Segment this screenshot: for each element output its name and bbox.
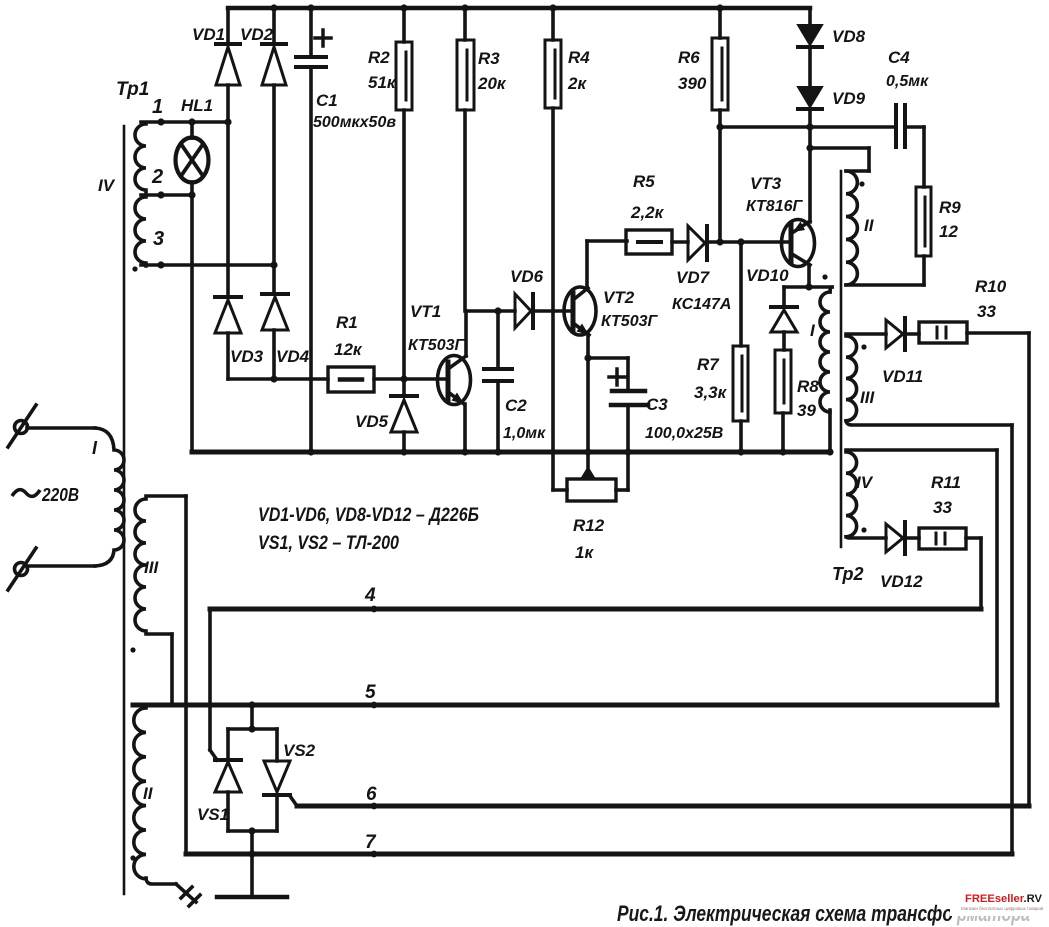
label AC tilde symbol [12, 490, 40, 497]
node bottom bus junctions [307, 448, 833, 455]
thyristor block top rail [228, 705, 277, 729]
resistor R9 [916, 127, 931, 285]
svg-text:II: II [864, 216, 875, 235]
wire tap 2 [141, 193, 192, 197]
svg-text:КС147А: КС147А [672, 296, 731, 313]
svg-text:3: 3 [153, 228, 164, 250]
transistor VT1 [438, 311, 471, 452]
winding I of Tp1 primary [95, 428, 124, 566]
node C2 top junction [494, 307, 501, 314]
svg-text:КТ503Г: КТ503Г [601, 313, 659, 330]
svg-text:Магазин бесплатных цифровых то: Магазин бесплатных цифровых товаров [961, 906, 1044, 911]
svg-text:VT2: VT2 [603, 288, 635, 307]
svg-text:R3: R3 [478, 49, 500, 68]
svg-text:КТ816Г: КТ816Г [746, 198, 804, 215]
svg-text:VD5: VD5 [355, 412, 389, 431]
diode VD6 [515, 294, 573, 328]
node emitter branch [584, 354, 591, 361]
diode VD7 zener [688, 226, 707, 260]
node VT3 collector junction [805, 283, 812, 290]
resistor R11 [919, 528, 981, 549]
node winding II polarity dot [859, 181, 864, 186]
svg-text:7: 7 [365, 832, 377, 853]
svg-text:VS2: VS2 [283, 741, 316, 760]
diode VD2 [262, 8, 286, 265]
svg-text:VD6: VD6 [510, 267, 544, 286]
resistor R6 [712, 8, 728, 242]
svg-text:VD2: VD2 [240, 25, 274, 44]
svg-text:VD1-VD6, VD8-VD12 – Д226Б: VD1-VD6, VD8-VD12 – Д226Б [258, 505, 479, 526]
node R6/R7 junctions on zener wire [716, 238, 744, 245]
wire line 7 [186, 852, 1012, 857]
svg-text:R2: R2 [368, 48, 390, 67]
wire line 4 [210, 607, 981, 612]
wire VD9 node to Tp2 winding II top [810, 148, 869, 171]
svg-text:500мкх50в: 500мкх50в [313, 114, 396, 131]
wire winding III top to line 7 [184, 496, 188, 854]
node junction dots on VD8/VD9 column [716, 123, 813, 151]
diode VD12 [886, 522, 919, 554]
capacitor C1 [296, 8, 331, 452]
winding IV of Tp1 section 1-2 [135, 124, 146, 193]
svg-text:I: I [92, 438, 98, 458]
node winding III polarity dot [130, 647, 135, 652]
svg-text:33: 33 [933, 498, 952, 517]
diode VD8 [798, 8, 822, 87]
svg-text:1к: 1к [575, 543, 594, 562]
svg-text:51к: 51к [368, 73, 397, 92]
node top bus junctions [270, 4, 723, 11]
diode VD9 [798, 87, 822, 222]
wire line 6 [297, 804, 1029, 809]
svg-text:VT3: VT3 [750, 174, 782, 193]
svg-text:КТ503Г: КТ503Г [408, 337, 466, 354]
wire tap 3 [141, 263, 274, 267]
svg-text:2,2к: 2,2к [630, 203, 665, 222]
resistor R1 [228, 367, 448, 392]
winding III of Tp1 [135, 496, 186, 634]
capacitor C2 [484, 311, 512, 452]
watermark freeseller [950, 876, 1049, 916]
wire tap 1 [141, 120, 228, 124]
svg-text:VS1: VS1 [197, 805, 229, 824]
svg-text:6: 6 [366, 784, 377, 805]
node winding II polarity dot [130, 855, 135, 860]
svg-text:R8: R8 [797, 377, 819, 396]
svg-text:VD3: VD3 [230, 347, 264, 366]
potentiometer R12 [567, 452, 628, 501]
wire winding III bottom to line 7 [1010, 425, 1014, 854]
wire common bottom bus [192, 450, 830, 455]
winding III of Tp2 [846, 334, 1012, 425]
svg-text:III: III [144, 558, 159, 577]
wire VT3 collector to winding I top [784, 285, 832, 289]
svg-text:100,0х25В: 100,0х25В [645, 425, 723, 442]
svg-text:R7: R7 [697, 355, 720, 374]
svg-text:R1: R1 [336, 313, 358, 332]
svg-text:1,0мк: 1,0мк [503, 425, 546, 442]
svg-text:HL1: HL1 [181, 96, 213, 115]
svg-text:VD1: VD1 [192, 25, 225, 44]
wire VS block to line7 and earth [250, 831, 254, 897]
svg-text:R12: R12 [573, 516, 605, 535]
resistor R10 [919, 322, 1029, 343]
svg-text:33: 33 [977, 302, 996, 321]
svg-text:C2: C2 [505, 396, 527, 415]
thyristor VS1 [215, 729, 241, 831]
capacitor C4 [896, 105, 924, 147]
svg-text:VD12: VD12 [880, 572, 923, 591]
wire R11 to line 4 [979, 538, 983, 609]
thyristor block bottom rail [228, 829, 277, 833]
svg-text:VD9: VD9 [832, 89, 866, 108]
svg-text:VT1: VT1 [410, 302, 441, 321]
transformer Tp1 core [123, 126, 126, 894]
svg-text:R9: R9 [939, 198, 961, 217]
wire winding IV top to line 5 [995, 450, 999, 705]
svg-text:3,3к: 3,3к [694, 383, 728, 402]
svg-text:C3: C3 [646, 395, 668, 414]
svg-text:II: II [143, 784, 154, 803]
svg-text:4: 4 [364, 585, 376, 606]
svg-text:5: 5 [365, 682, 376, 703]
svg-text:FREEseller.RV: FREEseller.RV [965, 893, 1042, 905]
node R1 wire junctions [270, 375, 407, 382]
resistor R5 [587, 230, 688, 254]
svg-text:12: 12 [939, 222, 958, 241]
label figure caption [617, 901, 1030, 926]
resistor R7 [733, 242, 748, 452]
svg-text:12к: 12к [334, 340, 363, 359]
svg-text:R4: R4 [568, 48, 590, 67]
resistor R8 [775, 350, 791, 452]
svg-text:R5: R5 [633, 172, 655, 191]
node winding IV polarity dot [132, 266, 137, 271]
winding II of Tp1 [134, 708, 176, 884]
capacitor C3 [609, 369, 648, 452]
svg-text:Тр1: Тр1 [116, 79, 149, 100]
transistor VT3 [707, 220, 815, 288]
transistor VT2 [564, 241, 596, 469]
diode VD4 [262, 265, 288, 379]
ground chassis symbol [176, 884, 200, 906]
winding IV of Tp2 [846, 450, 997, 538]
ground earth symbol [217, 895, 287, 900]
svg-text:20к: 20к [477, 74, 507, 93]
wire Tp2 winding II bottom to R9 [846, 283, 924, 287]
resistor R3 [457, 8, 474, 311]
diode VD11 [886, 318, 919, 350]
svg-text:2к: 2к [567, 74, 587, 93]
wire top supply bus [228, 6, 810, 11]
wire VT2 emitter to C3 [588, 358, 628, 390]
svg-text:Рис.1. Электрическая схема тра: Рис.1. Электрическая схема трансфо [617, 901, 953, 926]
svg-text:390: 390 [678, 74, 707, 93]
svg-text:VD11: VD11 [882, 367, 923, 386]
node measurement dots on lines [371, 606, 378, 858]
svg-text:VS1, VS2 – ТЛ-200: VS1, VS2 – ТЛ-200 [258, 533, 399, 554]
svg-text:IV: IV [98, 176, 116, 195]
resistor R2 [396, 8, 412, 379]
svg-text:C1: C1 [316, 91, 338, 110]
node winding I polarity dot [822, 274, 827, 279]
resistor R4 [545, 8, 567, 490]
thyristor VS2 [264, 729, 297, 831]
wire R6 to VD9 node to C4 [720, 125, 894, 129]
svg-text:R10: R10 [975, 277, 1007, 296]
svg-text:IV: IV [856, 473, 874, 492]
winding II of Tp2 [846, 171, 857, 285]
node tap junction dots [157, 118, 277, 268]
node winding IV Tp2 polarity dot [861, 527, 866, 532]
node winding III Tp2 polarity dot [861, 344, 866, 349]
terminal input 2 [8, 548, 95, 590]
svg-text:VD7: VD7 [676, 268, 711, 287]
wire lamp column to bottom bus [190, 195, 194, 452]
lamp HL1 [176, 122, 209, 195]
svg-text:Тр2: Тр2 [832, 564, 864, 584]
winding IV of Tp1 section 2-3 [135, 197, 146, 266]
wire R10 to line 6 [1027, 333, 1031, 806]
svg-text:39: 39 [797, 401, 816, 420]
wire line 4 to VS1 gate [210, 609, 217, 760]
svg-text:III: III [860, 388, 875, 407]
svg-text:VD10: VD10 [746, 266, 789, 285]
svg-text:220В: 220В [41, 484, 79, 505]
wire VD1/VD3 column [226, 122, 230, 297]
svg-text:1: 1 [152, 96, 163, 118]
wire line 5 [133, 703, 997, 708]
svg-text:VD4: VD4 [276, 347, 310, 366]
transformer Tp2 core [840, 171, 843, 547]
svg-text:2: 2 [151, 166, 163, 188]
winding I of Tp2 [820, 287, 832, 452]
svg-text:C4: C4 [888, 48, 910, 67]
wire winding III bottom to line 5 [170, 634, 174, 705]
diode VD1 [216, 8, 240, 122]
diode VD5 [391, 379, 417, 452]
diode VD3 [215, 297, 241, 379]
diode VD10 [771, 287, 797, 350]
svg-text:R11: R11 [931, 473, 961, 492]
node VS rail dots [248, 701, 255, 732]
svg-text:0,5мк: 0,5мк [886, 73, 929, 90]
svg-text:R6: R6 [678, 48, 700, 67]
svg-text:VD8: VD8 [832, 27, 866, 46]
svg-text:I: I [810, 321, 816, 340]
terminal input 1 [8, 405, 95, 447]
wire VT1 collector to VD6 [466, 309, 515, 313]
